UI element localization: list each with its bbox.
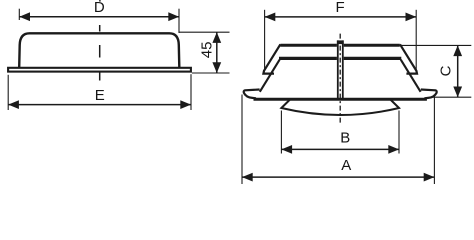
right view outer profile with rolled lip (left) (263, 44, 280, 73)
dimension A extension lines (242, 95, 434, 185)
dimension A line with arrows (242, 173, 434, 182)
right view center axis line (339, 34, 341, 124)
right view outer profile with rolled lip (right) (400, 44, 417, 73)
dimension C extension lines (401, 45, 472, 97)
left view centerline top tick (99, 0, 101, 2)
dimension F extension lines (265, 10, 417, 71)
right view upper cone top edge (280, 44, 399, 47)
dimension 45 line with arrows (212, 32, 221, 73)
dimension B line with arrows (281, 145, 399, 154)
left view base plate (8, 68, 191, 72)
right view center spindle (337, 40, 344, 98)
dimension E extension lines (8, 74, 191, 110)
svg-text:E: E (95, 87, 105, 104)
dimension 45 extension lines (179, 32, 230, 73)
dimension B extension lines (281, 111, 399, 154)
right view bottom rim line (254, 98, 427, 101)
right view inner cone slope (right) (401, 60, 421, 92)
svg-text:D: D (94, 0, 105, 16)
dimension D extension lines (19, 9, 179, 33)
left view cap outline (19, 33, 179, 67)
svg-text:A: A (341, 157, 351, 174)
right view inner cone slope (left) (260, 60, 280, 92)
dimension F line with arrows (265, 13, 417, 22)
right view rolled lip (right) (421, 90, 437, 99)
right view neck edge (F width) (279, 57, 401, 60)
svg-text:45: 45 (198, 42, 215, 59)
dimension E line with arrows (8, 100, 191, 109)
right view inner dish (281, 100, 399, 116)
svg-text:C: C (438, 65, 455, 76)
dimension C line with arrows (453, 45, 462, 97)
svg-text:B: B (340, 129, 350, 146)
dimension D line with arrows (19, 12, 179, 21)
right view rolled lip (left) (244, 90, 260, 99)
left view centerline (99, 25, 101, 81)
svg-text:F: F (336, 0, 345, 16)
